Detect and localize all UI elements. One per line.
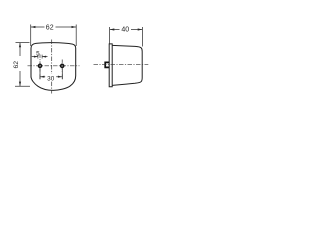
lamp body front view outline [31,43,76,91]
svg-text:62: 62 [46,25,54,32]
dim 62 left: extension lines [15,43,30,87]
dim 62 left: arrow top [19,43,21,48]
side view flange front/back lines [109,44,112,87]
dim 40: arrow right [138,28,143,30]
dim 62 top: dimension line [31,26,76,28]
dim 62 top: extension lines [31,25,76,47]
dim 62 left: dimension line [19,43,21,86]
dim 40: extension lines [110,27,143,47]
dim 30: arrow right [58,76,62,78]
dim 62 top: arrow right [72,26,77,28]
hole right [61,64,64,67]
dim 62 left: arrow bottom [19,82,21,87]
dim 40: arrow left [110,28,115,30]
side view mounting tab [105,62,109,67]
dim 30: arrow left [40,76,44,78]
dim 30: extension lines from holes [40,68,62,79]
hole left [38,64,41,67]
svg-text:40: 40 [121,26,129,33]
svg-text:62: 62 [13,61,20,69]
vertical centerline middle [51,40,53,94]
hole left centerline vertical [39,55,41,73]
side view centerline [94,64,149,66]
dim 30: end ticks [40,74,62,79]
dim 30: dimension line [40,76,62,78]
dim 5: tangent ticks [38,55,42,59]
dim 40: dimension line [110,29,143,31]
dim 5: right arrow line [42,56,47,58]
dim 5: left arrow line [32,56,38,58]
svg-text:30: 30 [47,75,55,82]
dim 62 top: arrow left [31,26,36,28]
hole right centerline vertical [61,60,63,73]
side view dome profile [112,45,142,85]
horizontal centerline through holes [28,65,80,67]
